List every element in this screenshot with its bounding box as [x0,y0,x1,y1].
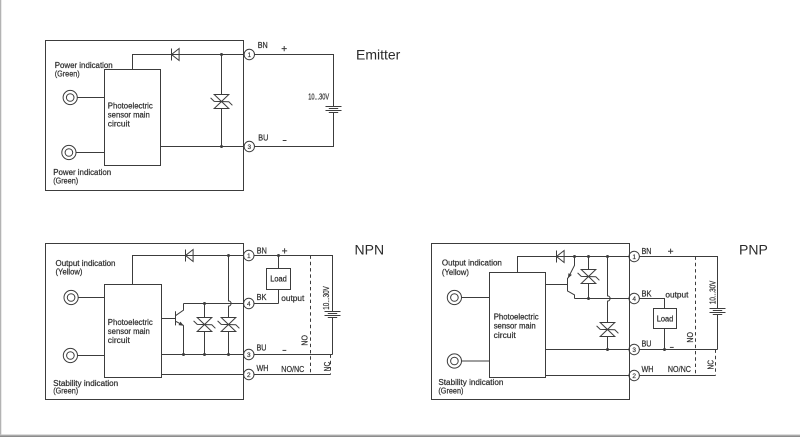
svg-text:sensor main: sensor main [108,327,150,336]
svg-text:BU: BU [642,340,652,349]
svg-text:1: 1 [247,52,251,59]
svg-text:NC: NC [706,360,715,370]
svg-text:NC: NC [323,362,332,372]
svg-text:BU: BU [258,134,268,143]
svg-text:4: 4 [247,301,251,308]
svg-text:(Yellow): (Yellow) [56,268,83,277]
svg-text:Emitter: Emitter [356,47,401,63]
svg-text:output: output [665,291,689,300]
svg-text:Photoelectric: Photoelectric [494,312,539,321]
svg-text:NO/NC: NO/NC [668,365,691,374]
svg-text:BK: BK [257,293,268,302]
svg-text:circuit: circuit [108,336,131,345]
svg-text:Output indication: Output indication [442,259,502,268]
svg-text:BK: BK [642,290,653,299]
svg-text:NPN: NPN [355,242,385,258]
svg-text:10...30V: 10...30V [322,286,331,310]
svg-text:3: 3 [632,347,636,354]
svg-text:Power indication: Power indication [53,168,111,177]
svg-text:BN: BN [257,246,267,255]
svg-text:Power indication: Power indication [55,61,113,70]
svg-text:output: output [281,294,305,303]
svg-text:BU: BU [257,343,267,352]
svg-text:1: 1 [247,253,251,260]
svg-text:sensor main: sensor main [494,322,536,331]
svg-text:1: 1 [632,254,636,261]
svg-text:10...30V: 10...30V [308,93,329,102]
svg-text:Load: Load [657,315,674,324]
svg-text:(Yellow): (Yellow) [442,268,469,277]
svg-text:Photoelectric: Photoelectric [108,101,153,110]
svg-text:NO: NO [686,332,695,343]
svg-text:(Green): (Green) [53,387,78,396]
svg-text:BN: BN [642,247,652,256]
svg-text:PNP: PNP [739,242,768,258]
svg-text:circuit: circuit [108,120,131,129]
svg-text:NO: NO [300,335,309,346]
svg-text:Load: Load [270,275,287,284]
svg-text:Photoelectric: Photoelectric [108,318,153,327]
svg-text:(Green): (Green) [438,387,463,396]
svg-text:WH: WH [257,364,269,373]
svg-text:WH: WH [642,365,654,374]
svg-text:2: 2 [247,372,251,379]
svg-text:BN: BN [258,41,268,50]
svg-text:(Green): (Green) [55,70,80,79]
svg-text:3: 3 [247,352,251,359]
svg-text:3: 3 [247,144,251,151]
svg-text:NO/NC: NO/NC [281,365,304,374]
svg-text:2: 2 [632,373,636,380]
svg-text:10...30V: 10...30V [709,280,718,304]
svg-text:sensor main: sensor main [108,111,150,120]
svg-text:(Green): (Green) [53,177,78,186]
svg-text:4: 4 [632,296,636,303]
svg-text:circuit: circuit [494,331,517,340]
